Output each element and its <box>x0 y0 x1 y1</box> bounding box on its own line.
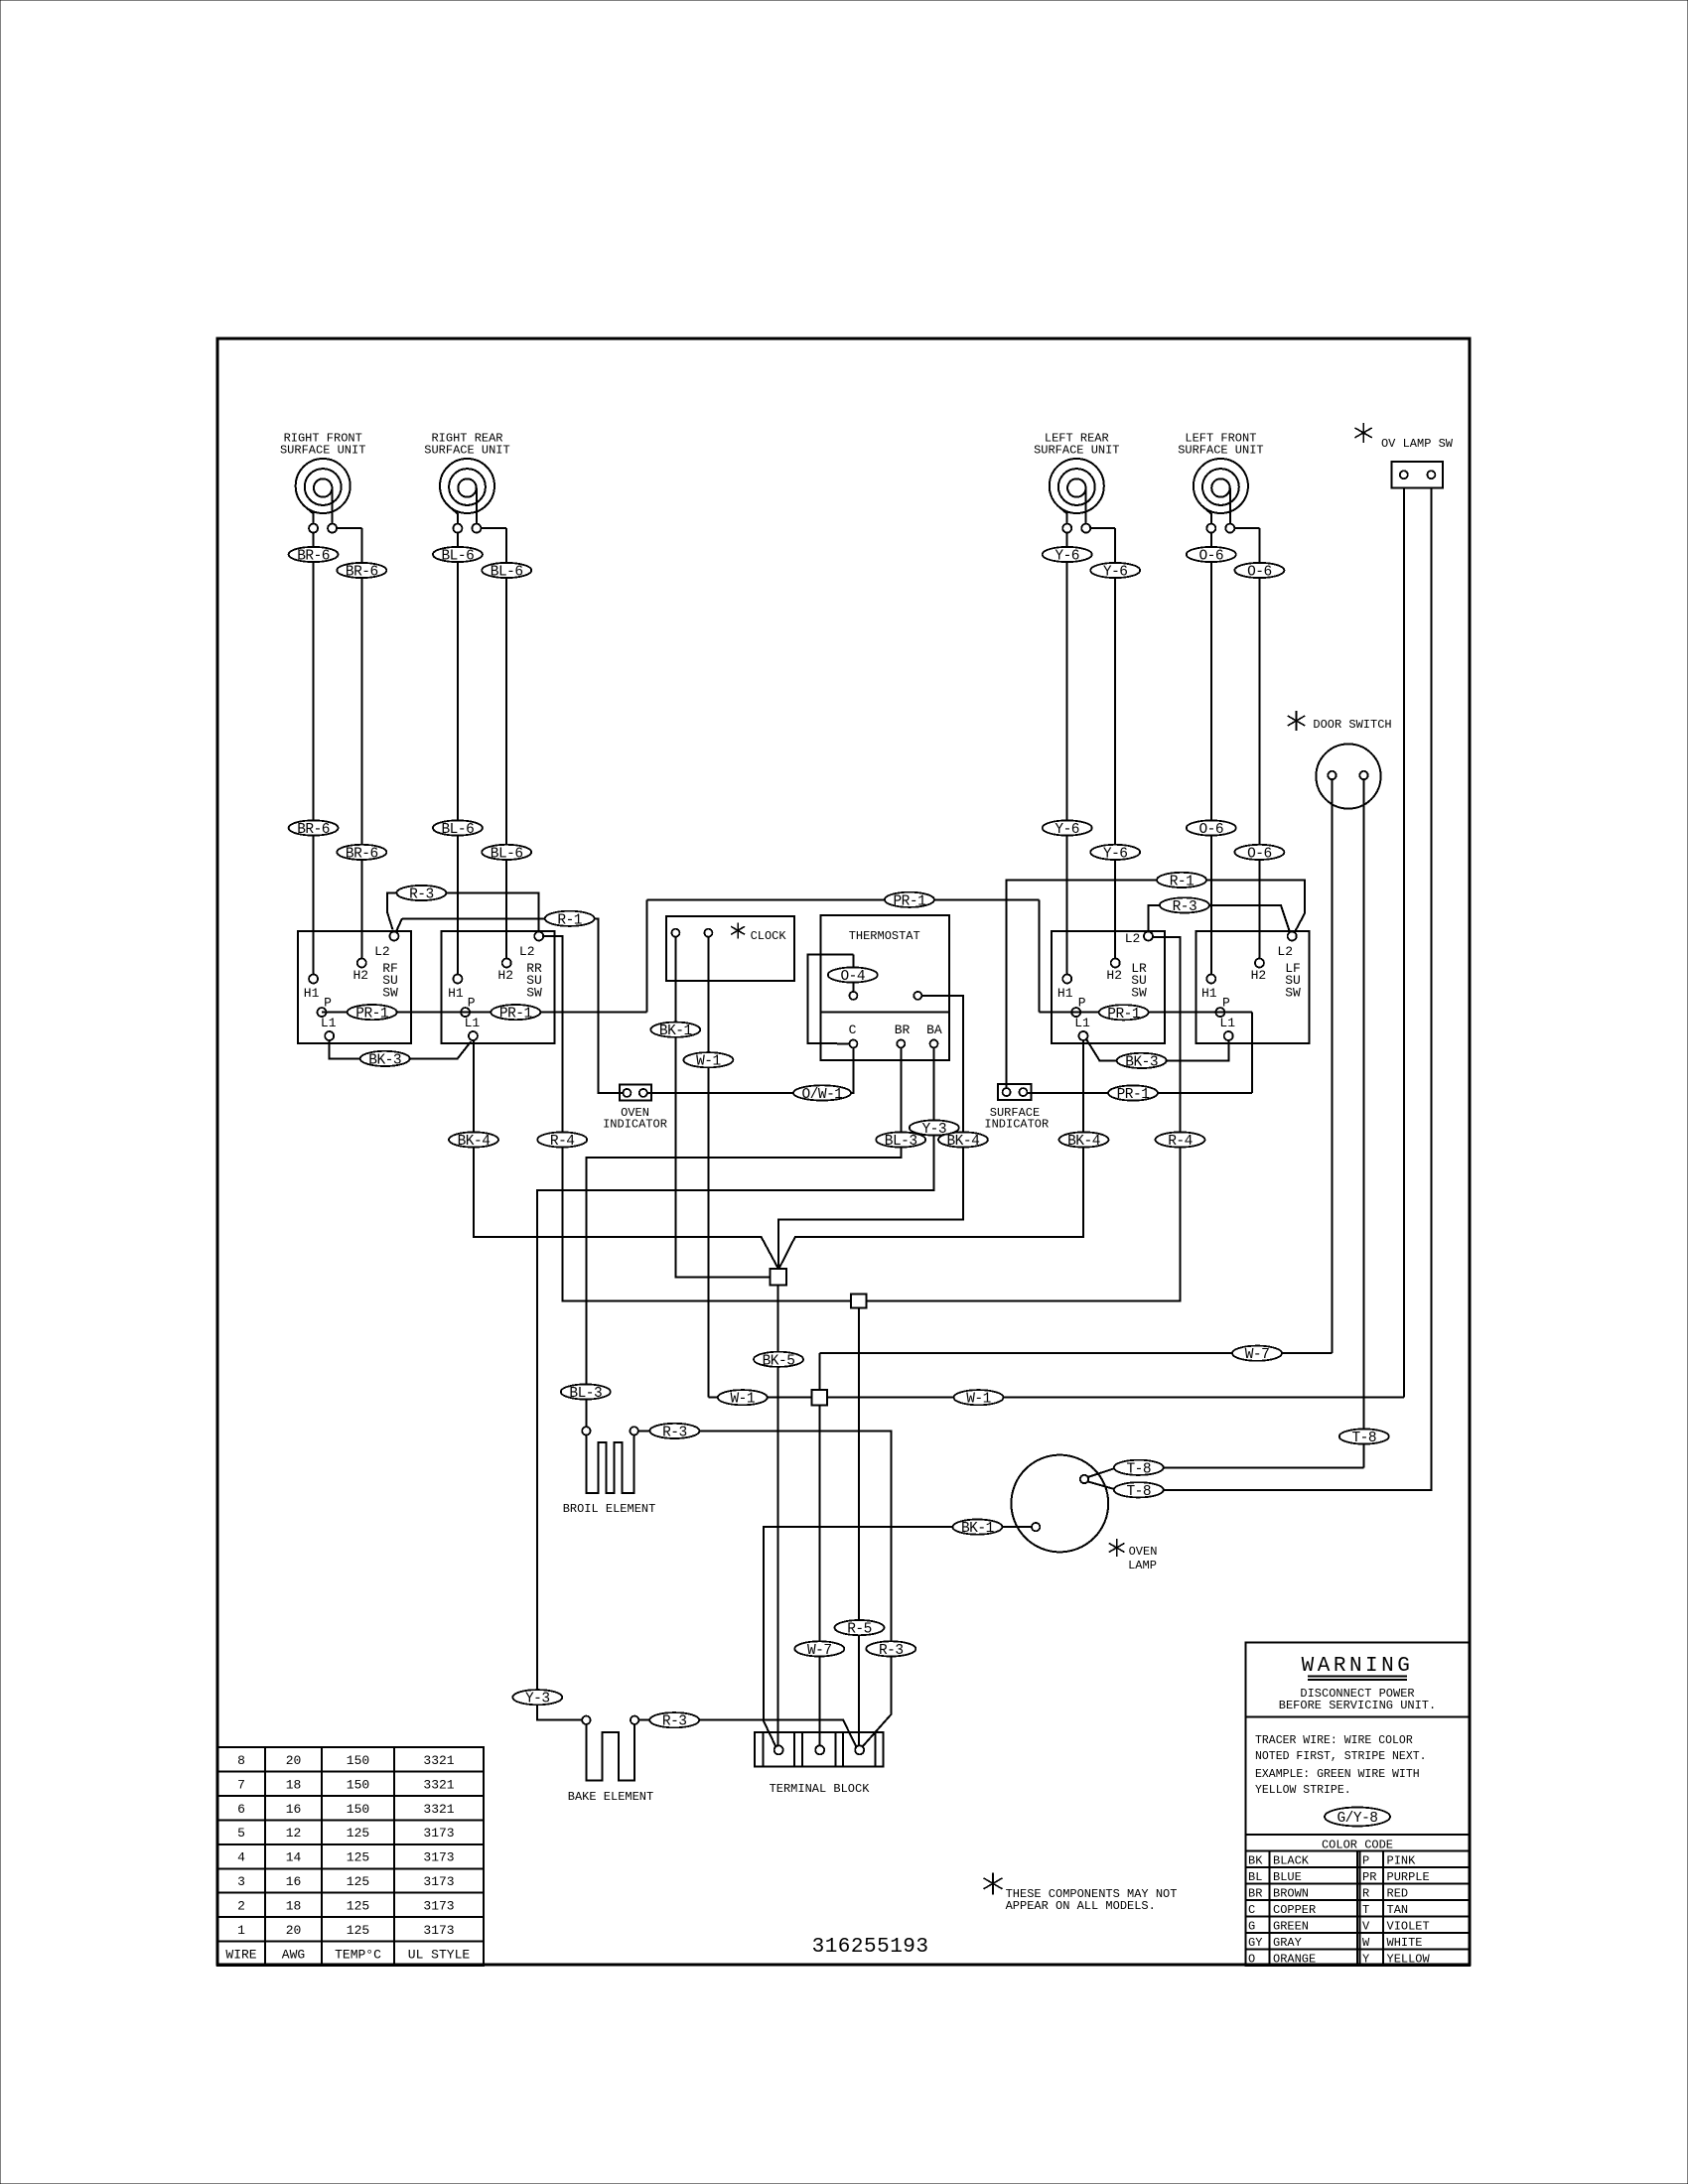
color table column line <box>1268 1851 1270 1966</box>
wire W-1 run to oven lamp switch <box>708 1397 1404 1399</box>
surface indicator terminal left <box>1003 1088 1011 1096</box>
svg-text:VIOLET: VIOLET <box>1387 1919 1430 1933</box>
svg-text:3173: 3173 <box>423 1850 454 1865</box>
wire O-6 terminal1 drop <box>1210 532 1212 975</box>
label G/Y-8 example ellipse <box>1325 1808 1390 1827</box>
switch LF SU SW box <box>1196 931 1310 1043</box>
label PR-1 ellipse top <box>885 892 934 907</box>
junction square 2 <box>851 1295 866 1308</box>
terminal block terminal 2 <box>815 1745 824 1754</box>
wire BK-4 RR L1 to junction 1 <box>474 1040 778 1269</box>
label R-3 ellipse left <box>396 886 446 900</box>
svg-text:Y-3: Y-3 <box>525 1692 550 1707</box>
LEFT REAR surface unit coil element <box>1050 459 1104 513</box>
svg-text:PR: PR <box>1362 1870 1376 1884</box>
svg-text:Y-6: Y-6 <box>1103 846 1128 862</box>
svg-text:Y-6: Y-6 <box>1055 549 1079 565</box>
svg-text:6: 6 <box>237 1802 245 1817</box>
color table row line 1 <box>1246 1866 1470 1868</box>
label BL-3 ellipse lower <box>561 1384 611 1399</box>
svg-text:H1: H1 <box>304 986 320 1001</box>
models note asterisk <box>992 1872 994 1894</box>
svg-text:TAN: TAN <box>1387 1903 1409 1917</box>
wire Y-6 terminal1 drop <box>1066 532 1068 975</box>
label W-1 ellipse run 1 <box>718 1390 768 1405</box>
switch RR terminal L2 <box>534 932 543 941</box>
svg-text:O-6: O-6 <box>1247 846 1272 862</box>
svg-text:O: O <box>1248 1952 1255 1966</box>
label BK-1 ellipse clock <box>650 1023 700 1037</box>
svg-text:P: P <box>1362 1853 1369 1867</box>
svg-text:14: 14 <box>286 1850 302 1865</box>
wire R-1 right surface indicator to LF L2 <box>1007 880 1305 1088</box>
svg-text:T-8: T-8 <box>1126 1461 1151 1477</box>
svg-text:BR-6: BR-6 <box>297 822 330 838</box>
switch RF terminal H1 <box>309 975 318 984</box>
label R-3 ellipse broil <box>649 1424 699 1438</box>
svg-text:T-8: T-8 <box>1126 1484 1151 1500</box>
wire Y-6 terminal2 jog <box>1090 527 1115 529</box>
wire R-3 bake element to terminal block 3 <box>638 1719 649 1721</box>
oven indicator box <box>620 1085 651 1101</box>
terminal block terminal 3 <box>855 1745 864 1754</box>
svg-text:12: 12 <box>286 1826 302 1841</box>
svg-text:H1: H1 <box>1057 986 1073 1001</box>
wire BK-4 LR L1 to junction 1 <box>779 1040 1084 1269</box>
surface indicator box <box>998 1084 1032 1100</box>
wire W-7 junction 3 down to terminal block 2 <box>818 1406 820 1746</box>
wire table row line 2 <box>217 1795 484 1797</box>
switch LR SU SW box <box>1052 931 1165 1043</box>
svg-text:SURFACE UNIT: SURFACE UNIT <box>1178 444 1263 458</box>
svg-text:16: 16 <box>286 1874 302 1889</box>
label O-6 ellipse row1 wire2 <box>1234 563 1284 578</box>
svg-text:BK: BK <box>1248 1853 1263 1867</box>
color table row line 4 <box>1246 1916 1470 1918</box>
switch RR terminal H1 <box>453 975 462 984</box>
svg-text:G/Y-8: G/Y-8 <box>1336 1811 1377 1827</box>
clock box <box>666 916 794 981</box>
clock terminal 2 <box>704 929 712 937</box>
svg-text:R-3: R-3 <box>879 1643 904 1659</box>
svg-text:BAKE ELEMENT: BAKE ELEMENT <box>568 1790 653 1804</box>
switch LR terminal H2 <box>1111 959 1120 968</box>
svg-text:125: 125 <box>347 1874 369 1889</box>
wire BL-3 thermostat BR to broil element <box>587 1048 902 1428</box>
wire BK-5 junction 1 to terminal block 1 <box>777 1285 779 1745</box>
svg-text:BL-6: BL-6 <box>491 565 523 581</box>
wire R-4 RR L2 to junction 2 <box>543 936 851 1301</box>
svg-text:SW: SW <box>382 985 398 1000</box>
svg-text:WHITE: WHITE <box>1387 1936 1423 1950</box>
label BR-6 ellipse row2 wire1 <box>289 820 339 835</box>
label W-7 ellipse run <box>1232 1346 1282 1361</box>
oven lamp switch asterisk <box>1362 423 1364 443</box>
svg-text:3321: 3321 <box>423 1753 454 1768</box>
RIGHT REAR coil terminal 2 <box>472 524 481 533</box>
svg-text:R-4: R-4 <box>550 1134 575 1150</box>
clock asterisk <box>737 922 739 938</box>
svg-text:INDICATOR: INDICATOR <box>984 1118 1049 1132</box>
svg-text:125: 125 <box>347 1898 369 1913</box>
label PR-1 ellipse between LR and LF <box>1099 1005 1149 1020</box>
wire table row line 1 <box>217 1771 484 1773</box>
door switch circle <box>1316 744 1380 808</box>
wire PR-1 drop to surface indicator line <box>1251 1013 1253 1093</box>
svg-text:125: 125 <box>347 1826 369 1841</box>
svg-text:BL: BL <box>1248 1870 1262 1884</box>
switch LF terminal L1 <box>1224 1031 1233 1040</box>
broil element terminal right <box>630 1427 637 1434</box>
thermostat internal U wire to C <box>808 955 854 1044</box>
terminal block divider 6 <box>875 1732 877 1766</box>
label BL-6 ellipse row1 wire2 <box>482 563 531 578</box>
switch RF terminal L1 <box>325 1031 334 1040</box>
svg-text:SURFACE UNIT: SURFACE UNIT <box>280 444 365 458</box>
terminal block terminal 1 <box>774 1745 783 1754</box>
wire table row line 7 <box>217 1916 484 1918</box>
bake element terminal right <box>631 1716 638 1724</box>
switch LR terminal P <box>1071 1008 1080 1017</box>
label O-6 ellipse row1 wire1 <box>1187 547 1236 562</box>
svg-text:BK-4: BK-4 <box>458 1134 491 1150</box>
svg-text:16: 16 <box>286 1802 302 1817</box>
wire W-7 run to door switch <box>819 1352 1332 1354</box>
svg-text:P: P <box>1078 996 1086 1011</box>
wire R-3 broil element to terminal block 3 <box>638 1430 650 1432</box>
svg-text:T-8: T-8 <box>1351 1431 1376 1446</box>
svg-text:7: 7 <box>237 1777 245 1792</box>
broil element terminal left <box>582 1427 590 1434</box>
svg-text:Y: Y <box>1362 1952 1369 1966</box>
svg-text:NOTED FIRST, STRIPE NEXT.: NOTED FIRST, STRIPE NEXT. <box>1255 1750 1427 1763</box>
wire W-7 junction 3 up to door switch run <box>818 1353 820 1390</box>
svg-text:H1: H1 <box>448 986 464 1001</box>
svg-text:GY: GY <box>1248 1936 1262 1950</box>
wire PR-1 P-line right (LR P to LF P) <box>1039 1012 1252 1014</box>
switch RF terminal L2 <box>389 932 398 941</box>
door switch terminal right <box>1359 771 1367 779</box>
svg-text:WIRE: WIRE <box>225 1947 256 1962</box>
svg-text:3173: 3173 <box>423 1874 454 1889</box>
color table row line 3 <box>1246 1899 1470 1901</box>
svg-text:Y-6: Y-6 <box>1103 565 1128 581</box>
wire BL-6 terminal1 drop <box>457 532 459 975</box>
svg-text:H2: H2 <box>1106 968 1122 983</box>
wire table column line 3 <box>393 1747 395 1966</box>
switch LF terminal H1 <box>1206 975 1215 984</box>
svg-text:H2: H2 <box>1251 968 1267 983</box>
wire R-3 left run RF L2 to RR L2 <box>387 893 539 932</box>
color code header divider <box>1246 1834 1470 1836</box>
svg-text:O-6: O-6 <box>1198 822 1223 838</box>
switch RR terminal P <box>461 1008 470 1017</box>
svg-text:P: P <box>1222 996 1230 1011</box>
label R-3 ellipse above terminal block <box>866 1641 915 1656</box>
switch RR terminal L1 <box>469 1031 478 1040</box>
wire door switch left terminal drop <box>1332 779 1334 1353</box>
svg-text:W-7: W-7 <box>1245 1347 1270 1363</box>
label O-6 ellipse row2 wire2 <box>1234 845 1284 860</box>
svg-text:R-1: R-1 <box>1170 874 1195 889</box>
svg-text:AWG: AWG <box>282 1947 305 1962</box>
svg-text:GRAY: GRAY <box>1273 1936 1302 1950</box>
wire O/W-1 oven indicator to thermostat C <box>647 1048 854 1093</box>
svg-text:BL-6: BL-6 <box>491 846 523 862</box>
color table row line 5 <box>1246 1932 1470 1934</box>
svg-text:YELLOW: YELLOW <box>1387 1952 1431 1966</box>
svg-text:WARNING: WARNING <box>1302 1655 1414 1678</box>
svg-text:RED: RED <box>1387 1886 1409 1900</box>
surface indicator terminal right <box>1019 1088 1027 1096</box>
svg-text:Y-6: Y-6 <box>1055 822 1079 838</box>
label Y-6 ellipse row2 wire1 <box>1043 820 1092 835</box>
wire table column line 1 <box>264 1747 266 1966</box>
terminal block divider 4 <box>835 1732 837 1766</box>
label W-1 ellipse clock <box>683 1052 733 1067</box>
label Y-3 ellipse upper <box>910 1120 959 1135</box>
svg-text:T: T <box>1362 1903 1369 1917</box>
wire R-4 LR L2 to junction 2 <box>866 937 1180 1301</box>
svg-text:R-3: R-3 <box>662 1714 687 1730</box>
label BL-6 ellipse row2 wire1 <box>433 820 483 835</box>
wire table row line 5 <box>217 1867 484 1869</box>
svg-text:O-4: O-4 <box>840 969 865 985</box>
svg-text:UL STYLE: UL STYLE <box>408 1947 471 1962</box>
svg-text:L1: L1 <box>1219 1016 1235 1030</box>
svg-text:ORANGE: ORANGE <box>1273 1952 1316 1966</box>
label PR-1 ellipse at RF <box>348 1005 397 1020</box>
svg-text:125: 125 <box>347 1923 369 1938</box>
svg-text:SURFACE UNIT: SURFACE UNIT <box>1034 444 1119 458</box>
clock terminal 1 <box>671 929 679 937</box>
svg-text:4: 4 <box>237 1850 245 1865</box>
svg-text:LAMP: LAMP <box>1128 1559 1157 1572</box>
svg-text:150: 150 <box>347 1802 369 1817</box>
thermostat right terminal <box>914 992 921 1000</box>
wire gauge table <box>217 1747 484 1966</box>
svg-text:3: 3 <box>237 1874 245 1889</box>
wire table row line 8 <box>217 1941 484 1943</box>
label BK-1 ellipse oven lamp <box>952 1520 1002 1535</box>
svg-text:W-1: W-1 <box>730 1392 755 1408</box>
label BK-4 ellipse right <box>1059 1132 1109 1147</box>
svg-text:O/W-1: O/W-1 <box>801 1087 842 1103</box>
svg-text:P: P <box>468 996 476 1011</box>
svg-text:L2: L2 <box>519 944 535 959</box>
oven indicator terminal left <box>623 1089 631 1097</box>
svg-text:BK-5: BK-5 <box>763 1353 795 1369</box>
label R-3 ellipse bake <box>649 1712 699 1727</box>
wire BK-1 oven lamp to terminal block 1 <box>764 1527 1032 1746</box>
door switch terminal left <box>1328 771 1336 779</box>
wire PR-1 P-line left (RF P to RR P to riser) <box>322 1012 646 1014</box>
label BK-5 ellipse <box>754 1352 803 1367</box>
oven lamp circle <box>1011 1455 1108 1553</box>
svg-text:R-3: R-3 <box>409 887 434 903</box>
label R-1 ellipse right <box>1157 873 1206 887</box>
svg-text:O-6: O-6 <box>1247 565 1272 581</box>
svg-text:BL-3: BL-3 <box>885 1134 917 1150</box>
wire T-8 oven lamp switch right drop <box>1160 487 1431 1490</box>
wire BL-6 terminal2 jog <box>481 527 506 529</box>
svg-text:3173: 3173 <box>423 1826 454 1841</box>
LEFT REAR coil terminal 1 <box>1062 524 1071 533</box>
wire PR-1 left riser <box>645 899 647 1012</box>
svg-text:BR-6: BR-6 <box>297 549 330 565</box>
svg-text:COPPER: COPPER <box>1273 1903 1316 1917</box>
label T-8 ellipse lower <box>1114 1482 1164 1497</box>
terminal block divider 5 <box>842 1732 844 1766</box>
svg-text:20: 20 <box>286 1923 302 1938</box>
svg-text:BR: BR <box>895 1023 911 1037</box>
svg-text:P: P <box>324 996 332 1011</box>
svg-text:BLACK: BLACK <box>1273 1853 1310 1867</box>
junction square 3 on W-1 run <box>812 1390 828 1406</box>
label Y-6 ellipse row1 wire2 <box>1090 563 1140 578</box>
oven lamp asterisk <box>1116 1539 1118 1557</box>
svg-text:COLOR CODE: COLOR CODE <box>1322 1839 1393 1852</box>
bake element heating coil <box>586 1724 634 1781</box>
terminal block divider 3 <box>801 1732 803 1766</box>
oven indicator terminal right <box>639 1089 647 1097</box>
svg-text:PR-1: PR-1 <box>355 1007 388 1023</box>
warning title underline <box>1308 1676 1407 1678</box>
wire table column line 2 <box>321 1747 323 1966</box>
svg-text:R-3: R-3 <box>662 1425 687 1440</box>
color table column line <box>1359 1851 1361 1966</box>
label O-4 ellipse <box>828 967 878 982</box>
svg-text:BR-6: BR-6 <box>346 846 378 862</box>
svg-text:L2: L2 <box>1125 931 1141 946</box>
LEFT FRONT coil terminal 2 <box>1225 524 1234 533</box>
switch LF terminal H2 <box>1255 959 1264 968</box>
svg-text:PR-1: PR-1 <box>1107 1007 1140 1023</box>
label W-7 ellipse lower <box>794 1641 844 1656</box>
svg-text:BROWN: BROWN <box>1273 1886 1309 1900</box>
svg-text:18: 18 <box>286 1777 302 1792</box>
svg-text:150: 150 <box>347 1777 369 1792</box>
svg-text:W-1: W-1 <box>966 1392 991 1408</box>
svg-text:PINK: PINK <box>1387 1853 1417 1867</box>
color code table <box>1246 1850 1470 1852</box>
svg-text:3321: 3321 <box>423 1802 454 1817</box>
svg-text:5: 5 <box>237 1826 245 1841</box>
RIGHT FRONT surface unit coil element <box>296 459 351 513</box>
label PR-1 ellipse surface indicator line <box>1108 1085 1158 1100</box>
svg-text:C: C <box>1248 1903 1255 1917</box>
color table column line <box>1382 1851 1384 1966</box>
svg-text:GREEN: GREEN <box>1273 1919 1309 1933</box>
wire Y-3 thermostat BA to bake element <box>537 1048 934 1720</box>
drawing border frame <box>217 339 1470 1965</box>
wire R-1 left RF L2 to oven indicator <box>396 918 402 932</box>
svg-text:THERMOSTAT: THERMOSTAT <box>849 929 920 943</box>
label BK-4 ellipse thermostat <box>938 1132 988 1147</box>
color table row line 6 <box>1246 1949 1470 1951</box>
svg-text:L2: L2 <box>374 944 390 959</box>
switch LR terminal L2 <box>1144 932 1153 941</box>
wire door switch right terminal drop T-8 <box>1363 779 1365 1467</box>
svg-text:W: W <box>1362 1936 1370 1950</box>
switch LR terminal L1 <box>1079 1031 1088 1040</box>
wire O-6 terminal2 jog <box>1234 527 1259 529</box>
oven lamp terminal top <box>1080 1475 1088 1483</box>
svg-text:316255193: 316255193 <box>812 1936 929 1959</box>
svg-text:DOOR SWITCH: DOOR SWITCH <box>1313 718 1391 732</box>
thermostat terminal BA <box>930 1039 938 1047</box>
label BL-6 ellipse row2 wire2 <box>482 845 531 860</box>
label Y-6 ellipse row2 wire2 <box>1090 845 1140 860</box>
svg-text:18: 18 <box>286 1898 302 1913</box>
label R-4 ellipse right <box>1156 1132 1205 1147</box>
svg-text:C: C <box>849 1023 857 1037</box>
svg-text:125: 125 <box>347 1850 369 1865</box>
switch RR SU SW box <box>442 931 555 1043</box>
label O-6 ellipse row2 wire1 <box>1187 820 1236 835</box>
LEFT REAR coil terminal 2 <box>1081 524 1090 533</box>
switch LF terminal P <box>1215 1008 1224 1017</box>
svg-text:H2: H2 <box>497 968 513 983</box>
oven lamp switch box <box>1392 462 1443 487</box>
svg-text:3173: 3173 <box>423 1898 454 1913</box>
svg-text:R: R <box>1362 1886 1369 1900</box>
svg-text:YELLOW STRIPE.: YELLOW STRIPE. <box>1255 1784 1351 1797</box>
warning divider <box>1246 1716 1470 1718</box>
svg-text:PR-1: PR-1 <box>893 893 925 909</box>
label T-8 ellipse upper <box>1114 1460 1164 1475</box>
svg-text:V: V <box>1362 1919 1370 1933</box>
svg-text:BK-1: BK-1 <box>961 1521 994 1537</box>
svg-text:L1: L1 <box>321 1016 337 1030</box>
svg-text:SW: SW <box>1285 985 1301 1000</box>
label R-1 ellipse left <box>545 911 595 926</box>
label BR-6 ellipse row2 wire2 <box>337 845 386 860</box>
svg-text:EXAMPLE: GREEN WIRE WITH: EXAMPLE: GREEN WIRE WITH <box>1255 1768 1420 1781</box>
thermostat sensor terminal <box>849 992 857 1000</box>
svg-text:CLOCK: CLOCK <box>751 929 787 943</box>
svg-text:BK-3: BK-3 <box>1125 1054 1158 1070</box>
wire BK-4 thermostat to junction 1 <box>778 996 963 1269</box>
wire R-5 junction 2 to terminal block 3 <box>858 1308 860 1746</box>
svg-text:BL-3: BL-3 <box>569 1386 602 1402</box>
label R-5 ellipse <box>835 1620 885 1635</box>
label W-1 ellipse run 2 <box>954 1390 1004 1405</box>
wire table row line 6 <box>217 1892 484 1894</box>
svg-text:Y-3: Y-3 <box>921 1122 946 1138</box>
wire W-1 clock down to W-1 run <box>707 937 709 1398</box>
bake element terminal left <box>582 1716 590 1724</box>
switch RR terminal H2 <box>502 959 511 968</box>
color table column line <box>1356 1851 1358 1966</box>
svg-text:SW: SW <box>526 985 542 1000</box>
svg-text:OVEN: OVEN <box>1129 1545 1158 1559</box>
thermostat internal divider <box>821 1011 949 1013</box>
RIGHT FRONT coil terminal 1 <box>309 524 318 533</box>
door switch asterisk <box>1296 711 1298 731</box>
terminal block outline <box>755 1732 884 1766</box>
label Y-3 ellipse lower <box>512 1690 562 1705</box>
svg-text:L1: L1 <box>1074 1016 1090 1030</box>
svg-text:W-7: W-7 <box>807 1643 832 1659</box>
svg-text:PURPLE: PURPLE <box>1387 1870 1430 1884</box>
label BL-6 ellipse row1 wire1 <box>433 547 483 562</box>
svg-text:TEMP°C: TEMP°C <box>335 1947 381 1962</box>
label BR-6 ellipse row1 wire2 <box>337 563 386 578</box>
junction square 1 <box>771 1269 786 1285</box>
thermostat terminal C <box>849 1039 857 1047</box>
svg-text:R-3: R-3 <box>1173 899 1197 915</box>
